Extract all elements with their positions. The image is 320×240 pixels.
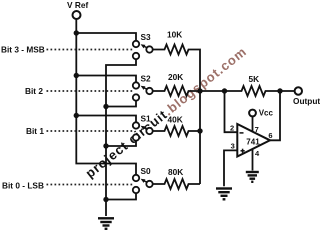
svg-text:Bit 0 - LSB: Bit 0 - LSB [2, 181, 44, 191]
svg-text:V Ref: V Ref [67, 0, 88, 10]
svg-text:80K: 80K [168, 167, 183, 177]
svg-text:6: 6 [268, 131, 272, 140]
svg-text:40K: 40K [168, 115, 183, 125]
svg-text:5K: 5K [249, 74, 260, 84]
svg-text:Bit 1: Bit 1 [26, 126, 44, 136]
svg-text:S2: S2 [141, 74, 152, 84]
svg-text:Vcc: Vcc [259, 109, 274, 118]
svg-text:S0: S0 [141, 166, 152, 176]
svg-text:10K: 10K [167, 30, 182, 40]
svg-text:S3: S3 [141, 32, 152, 42]
svg-text:7: 7 [255, 125, 259, 134]
svg-text:S1: S1 [141, 114, 152, 124]
svg-text:3: 3 [231, 142, 235, 151]
svg-text:4: 4 [255, 149, 260, 158]
svg-text:20K: 20K [168, 72, 183, 82]
svg-text:2: 2 [230, 123, 234, 132]
svg-text:Output: Output [293, 96, 320, 106]
svg-text:741: 741 [246, 137, 260, 146]
svg-text:Bit 2: Bit 2 [25, 86, 43, 96]
svg-text:Bit 3 - MSB: Bit 3 - MSB [1, 45, 45, 55]
